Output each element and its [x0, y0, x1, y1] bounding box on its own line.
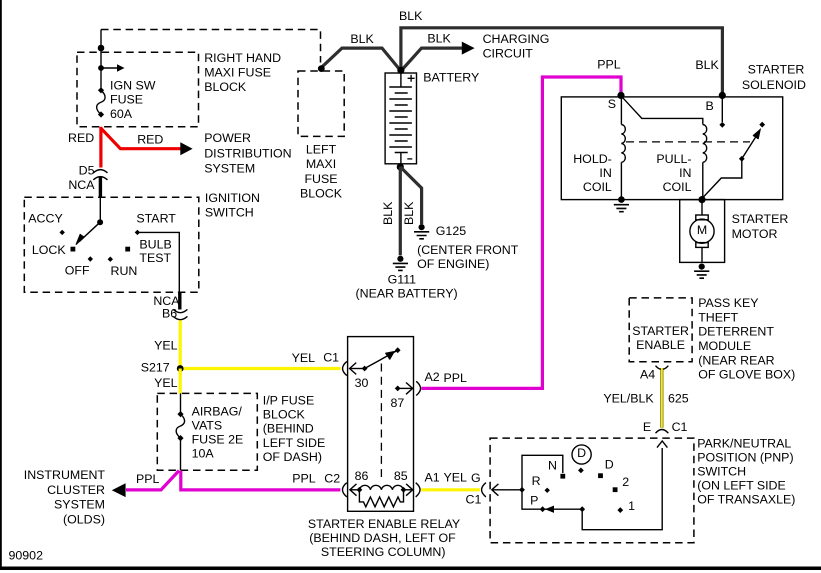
park/neutral position switch box: [490, 438, 694, 543]
contact D: [598, 473, 603, 478]
svg-text:IGNITION: IGNITION: [205, 191, 260, 205]
svg-text:OF TRANSAXLE): OF TRANSAXLE): [697, 493, 795, 507]
svg-text:RED: RED: [68, 131, 94, 145]
arrow to POWER DISTRIBUTION SYSTEM: [180, 142, 192, 155]
svg-text:OFF: OFF: [65, 263, 90, 277]
node S217: [177, 365, 184, 372]
svg-text:90902: 90902: [9, 549, 44, 563]
svg-text:OF GLOVE BOX): OF GLOVE BOX): [698, 368, 795, 382]
svg-text:G125: G125: [436, 224, 466, 238]
I/P fuse block box: [157, 393, 257, 470]
svg-text:(ON LEFT SIDE: (ON LEFT SIDE: [697, 479, 786, 493]
svg-text:87: 87: [391, 396, 405, 410]
svg-text:COIL: COIL: [663, 180, 692, 194]
wire to N contact: [522, 455, 563, 490]
svg-text:LOCK: LOCK: [32, 243, 66, 257]
svg-text:IN: IN: [679, 166, 691, 180]
svg-text:CIRCUIT: CIRCUIT: [483, 46, 534, 60]
svg-text:PARK/NEUTRAL: PARK/NEUTRAL: [697, 437, 791, 451]
svg-text:I/P FUSE: I/P FUSE: [263, 393, 314, 407]
svg-text:B: B: [706, 99, 714, 113]
wire: [100, 30, 102, 91]
svg-text:C1: C1: [323, 351, 339, 365]
svg-text:BLK: BLK: [402, 201, 416, 225]
svg-text:BLOCK: BLOCK: [263, 408, 306, 422]
contact R: [545, 488, 550, 493]
svg-text:86: 86: [355, 469, 369, 483]
svg-text:1: 1: [628, 499, 635, 513]
contact LOCK: [71, 247, 76, 252]
wire PPL to relay C2: [181, 471, 341, 490]
svg-text:(NEAR BATTERY): (NEAR BATTERY): [356, 287, 458, 301]
svg-text:B6: B6: [162, 307, 177, 321]
ground G111: [397, 256, 403, 262]
svg-text:DETERRENT: DETERRENT: [698, 325, 774, 339]
svg-text:M: M: [697, 223, 707, 237]
svg-text:INSTRUMENT: INSTRUMENT: [24, 468, 106, 482]
node on left maxi fuse block: [318, 65, 325, 72]
svg-text:PASS KEY: PASS KEY: [698, 296, 758, 310]
svg-text:TEST: TEST: [139, 251, 171, 265]
wire BLK battery to top run and starter solenoid B: [401, 28, 723, 95]
wire blade return to motor node: [702, 159, 742, 199]
svg-text:D: D: [605, 457, 614, 471]
svg-text:G111: G111: [388, 273, 417, 287]
svg-text:THEFT: THEFT: [698, 310, 738, 324]
ground under starter motor: [699, 264, 705, 270]
svg-text:P: P: [530, 493, 538, 507]
node PNP common: [519, 487, 525, 493]
connector C1 into PNP: [482, 483, 486, 497]
relay switch blade: [365, 350, 398, 368]
svg-text:MOTOR: MOTOR: [732, 227, 778, 241]
svg-text:C2: C2: [324, 472, 340, 486]
wire PPL to instrument cluster: [126, 471, 179, 490]
switch blade to LOCK: [80, 222, 101, 241]
svg-text:BULB: BULB: [139, 238, 171, 252]
svg-text:LEFT: LEFT: [306, 143, 337, 157]
wire B to solenoid contact: [721, 95, 723, 122]
wire dashed link between fuse blocks: [101, 30, 321, 63]
svg-text:85: 85: [394, 469, 408, 483]
PNP input arrow terminal: [492, 484, 499, 496]
svg-text:RUN: RUN: [111, 264, 138, 278]
wire from START out of box: [137, 232, 179, 292]
svg-text:(BEHIND: (BEHIND: [263, 422, 314, 436]
dashed plunger linkage: [626, 141, 750, 143]
node junction above right hand maxi fuse block: [98, 45, 105, 52]
solenoid switch blade: [739, 156, 745, 162]
svg-text:C1: C1: [672, 420, 688, 434]
svg-text:MAXI: MAXI: [306, 157, 336, 171]
fuse IGN SW FUSE 60A: [98, 87, 104, 93]
ground under hold-in coil: [614, 205, 629, 212]
svg-text:60A: 60A: [110, 107, 133, 121]
svg-text:CLUSTER: CLUSTER: [47, 483, 105, 497]
svg-text:PPL: PPL: [292, 472, 316, 486]
svg-text:SOLENOID: SOLENOID: [742, 78, 806, 92]
svg-text:SYSTEM: SYSTEM: [204, 162, 255, 176]
connector E C1: [656, 430, 669, 434]
starter solenoid box: [561, 97, 782, 200]
svg-text:625: 625: [668, 392, 689, 406]
svg-text:ENABLE: ENABLE: [636, 338, 685, 352]
svg-text:LEFT SIDE: LEFT SIDE: [263, 436, 325, 450]
contact P blade: [540, 506, 546, 512]
svg-text:10A: 10A: [192, 447, 215, 461]
svg-text:(CENTER FRONT: (CENTER FRONT: [417, 243, 519, 257]
svg-text:YEL: YEL: [154, 376, 178, 390]
contact: [719, 122, 725, 128]
svg-text:START: START: [136, 212, 176, 226]
node tap with arrow inside fuse block: [98, 65, 104, 71]
wire YEL relay A1 to PNP: [421, 488, 480, 491]
svg-text:YEL: YEL: [444, 471, 468, 485]
contact ACCY: [60, 230, 65, 235]
svg-text:ACCY: ACCY: [28, 212, 62, 226]
svg-text:G: G: [471, 471, 481, 485]
ignition switch box: [24, 197, 199, 292]
svg-text:D: D: [577, 446, 586, 460]
svg-text:BLOCK: BLOCK: [204, 80, 247, 94]
svg-text:CHARGING: CHARGING: [483, 32, 550, 46]
svg-text:C1: C1: [466, 493, 482, 507]
wire PPL from relay A2 up to solenoid S: [421, 77, 621, 388]
connector B6 NCA: [173, 309, 187, 312]
svg-text:R: R: [532, 474, 541, 488]
svg-text:YEL: YEL: [154, 339, 178, 353]
svg-text:BLK: BLK: [399, 9, 423, 23]
drive circle D: [572, 445, 591, 464]
svg-text:S217: S217: [141, 361, 170, 375]
pin 87 arrow terminal: [395, 386, 401, 392]
left maxi fuse block box: [298, 71, 344, 136]
svg-text:2: 2: [622, 475, 629, 489]
contact RUN: [108, 257, 113, 262]
wire P to E terminal: [582, 448, 662, 530]
svg-text:SWITCH: SWITCH: [697, 465, 746, 479]
wire BLK battery to left maxi fuse block: [321, 48, 401, 71]
node solenoid output: [698, 196, 705, 203]
svg-text:SYSTEM: SYSTEM: [54, 498, 105, 512]
svg-text:MAXI FUSE: MAXI FUSE: [204, 66, 271, 80]
svg-text:STEERING COLUMN): STEERING COLUMN): [321, 545, 446, 559]
svg-text:A4: A4: [640, 367, 655, 381]
node battery -: [397, 163, 404, 170]
svg-text:BLK: BLK: [381, 201, 395, 225]
svg-text:YEL/BLK: YEL/BLK: [603, 392, 654, 406]
connector D5 NCA: [93, 170, 107, 173]
svg-text:DISTRIBUTION: DISTRIBUTION: [204, 147, 291, 161]
wire from D5 into ignition switch: [99, 177, 102, 198]
wire YEL/BLK 625: [660, 368, 663, 428]
arrow to INSTRUMENT CLUSTER SYSTEM: [112, 483, 126, 497]
connector C2: [342, 483, 346, 497]
svg-text:(NEAR REAR: (NEAR REAR: [698, 353, 774, 367]
relay coil: [359, 485, 403, 490]
svg-text:IN: IN: [599, 166, 611, 180]
svg-text:(BEHIND DASH, LEFT OF: (BEHIND DASH, LEFT OF: [309, 531, 456, 545]
wire YEL from S217 to I/P fuse block: [179, 369, 182, 394]
node terminal S: [617, 92, 624, 99]
svg-text:STARTER: STARTER: [748, 63, 805, 77]
svg-text:BLK: BLK: [350, 32, 374, 46]
starter enable relay box: [348, 337, 414, 512]
contact START: [135, 230, 140, 235]
svg-text:BLK: BLK: [427, 31, 451, 45]
svg-text:POSITION (PNP): POSITION (PNP): [697, 451, 793, 465]
svg-text:PPL: PPL: [444, 371, 468, 385]
arrow to CHARGING CIRCUIT: [462, 42, 475, 55]
node battery +: [397, 67, 404, 74]
svg-text:A1: A1: [425, 471, 440, 485]
svg-text:FUSE: FUSE: [304, 172, 337, 186]
connector A2: [416, 381, 420, 395]
connector C1 at pin 30: [343, 361, 347, 375]
contact OFF: [88, 256, 93, 261]
svg-text:OF ENGINE): OF ENGINE): [417, 257, 489, 271]
svg-text:PPL: PPL: [597, 58, 621, 72]
svg-text:VATS: VATS: [192, 419, 223, 433]
wire BLK battery to G111: [399, 167, 402, 256]
svg-text:30: 30: [355, 376, 369, 390]
svg-text:NCA: NCA: [68, 178, 95, 192]
svg-text:(OLDS): (OLDS): [63, 512, 105, 526]
svg-text:D5: D5: [79, 164, 95, 178]
starter motor enclosure: [680, 200, 725, 263]
node hold-in coil to ground: [618, 196, 625, 203]
wire RED branch to power distribution: [101, 128, 181, 149]
svg-text:OF DASH): OF DASH): [263, 450, 322, 464]
node terminal B: [719, 92, 726, 99]
svg-text:POWER: POWER: [204, 131, 251, 145]
fuse AIRBAG/VATS FUSE 2E 10A: [177, 411, 183, 417]
wire inside fuse block: [180, 393, 182, 470]
wire BLK to charging circuit: [401, 48, 463, 71]
svg-text:FUSE 2E: FUSE 2E: [192, 433, 244, 447]
svg-text:PPL: PPL: [136, 472, 160, 486]
motor M: [701, 200, 703, 263]
svg-text:YEL: YEL: [292, 351, 316, 365]
svg-text:MODULE: MODULE: [698, 339, 751, 353]
contact: [759, 122, 765, 128]
svg-text:HOLD-: HOLD-: [573, 152, 612, 166]
pin 30 arrow terminal: [350, 363, 357, 375]
svg-text:STARTER: STARTER: [732, 212, 789, 226]
connector A1: [416, 483, 420, 497]
wire to P blade: [522, 490, 540, 509]
hold-in coil: [620, 95, 622, 124]
pass key module box: [629, 298, 692, 362]
svg-text:PULL-: PULL-: [656, 152, 691, 166]
switch blade pivot: [97, 219, 103, 225]
connector A4: [656, 366, 669, 370]
relay coil resistor: [359, 490, 403, 507]
right hand maxi fuse block box: [77, 52, 199, 127]
contact 1: [617, 507, 623, 513]
svg-text:AIRBAG/: AIRBAG/: [192, 405, 243, 419]
svg-text:S: S: [608, 97, 616, 111]
wire YEL from B6 to S217: [179, 320, 182, 368]
wire S to pull-in coil: [621, 96, 703, 125]
svg-text:STARTER ENABLE RELAY: STARTER ENABLE RELAY: [308, 517, 460, 531]
svg-text:A2: A2: [425, 370, 440, 384]
svg-text:FUSE: FUSE: [110, 93, 143, 107]
wire YEL from S217 to relay C1: [180, 367, 340, 370]
ground G125: [419, 224, 425, 230]
wire RED from fuse to D5: [99, 127, 102, 168]
svg-text:RED: RED: [137, 132, 163, 146]
svg-text:BLK: BLK: [695, 58, 719, 72]
wire BLK battery to G125: [400, 167, 421, 224]
contact 2: [613, 487, 618, 492]
pin 85 arrow terminal: [401, 487, 407, 493]
svg-text:RIGHT HAND: RIGHT HAND: [204, 51, 281, 65]
svg-text:STARTER: STARTER: [632, 324, 689, 338]
pull-in coil: [703, 125, 707, 163]
svg-text:E: E: [643, 420, 651, 434]
svg-text:SWITCH: SWITCH: [205, 206, 254, 220]
svg-text:IGN SW: IGN SW: [110, 79, 156, 93]
svg-text:COIL: COIL: [583, 180, 612, 194]
svg-text:BLOCK: BLOCK: [300, 187, 343, 201]
contact N: [560, 474, 565, 479]
pin 86 arrow terminal: [350, 484, 357, 496]
contact BULB TEST: [125, 247, 130, 252]
dashed armature line: [380, 364, 382, 478]
svg-text:N: N: [548, 459, 557, 473]
battery: [385, 73, 416, 164]
svg-text:BATTERY: BATTERY: [423, 70, 479, 84]
